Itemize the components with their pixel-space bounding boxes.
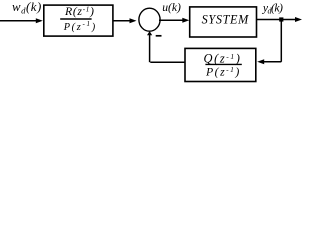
svg-text:yd(k): yd(k) bbox=[262, 1, 283, 15]
svg-text:SYSTEM: SYSTEM bbox=[202, 13, 249, 27]
svg-text:Q(z-1): Q(z-1) bbox=[204, 51, 242, 65]
svg-text:u(k): u(k) bbox=[162, 1, 181, 14]
svg-text:R(z-1): R(z-1) bbox=[64, 4, 95, 18]
svg-text:P(z-1): P(z-1) bbox=[63, 20, 97, 33]
svg-text:P(z-1): P(z-1) bbox=[205, 65, 241, 79]
svg-text:wd(k): wd(k) bbox=[12, 0, 42, 15]
